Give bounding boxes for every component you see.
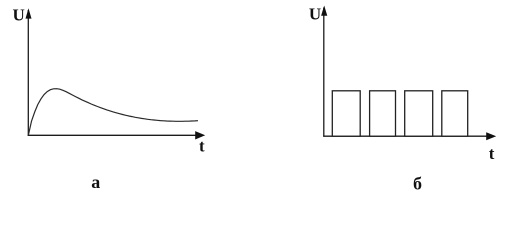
svg-text:U: U <box>13 6 25 25</box>
svg-text:t: t <box>199 137 205 156</box>
svg-text:t: t <box>489 144 495 163</box>
svg-text:б: б <box>413 174 422 193</box>
svg-text:а: а <box>91 172 100 192</box>
svg-text:U: U <box>309 5 321 24</box>
